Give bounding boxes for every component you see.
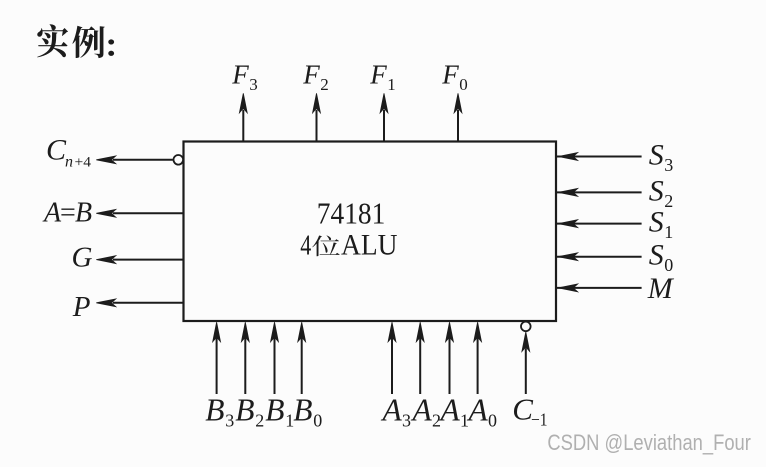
svg-text:CSDN @Leviathan_Four: CSDN @Leviathan_Four <box>547 430 751 455</box>
svg-text:F: F <box>441 60 459 90</box>
svg-text:2: 2 <box>255 411 264 431</box>
svg-text:=: = <box>60 198 76 229</box>
svg-text:A: A <box>439 392 461 427</box>
svg-text:3: 3 <box>225 411 234 431</box>
svg-text:F: F <box>231 60 249 90</box>
svg-text:74181: 74181 <box>317 195 386 230</box>
svg-text:0: 0 <box>313 411 322 431</box>
svg-text:B: B <box>75 198 92 229</box>
svg-text:4: 4 <box>300 230 311 262</box>
svg-text:A: A <box>381 392 403 427</box>
svg-text:3: 3 <box>664 155 673 175</box>
svg-text:0: 0 <box>459 75 468 94</box>
svg-text:+4: +4 <box>75 154 92 170</box>
svg-text:1: 1 <box>387 75 396 94</box>
svg-text:3: 3 <box>402 411 411 431</box>
svg-text:n: n <box>65 153 73 170</box>
svg-text:G: G <box>72 241 93 273</box>
svg-text:2: 2 <box>320 75 329 94</box>
svg-text:B: B <box>293 392 312 427</box>
svg-text:B: B <box>235 392 254 427</box>
svg-text:A: A <box>42 198 62 229</box>
svg-text:F: F <box>369 60 387 90</box>
svg-text:B: B <box>265 392 284 427</box>
svg-text:S: S <box>649 139 664 172</box>
svg-text:2: 2 <box>664 191 673 211</box>
svg-text:3: 3 <box>249 75 257 94</box>
svg-text:−1: −1 <box>531 410 548 430</box>
svg-text:ALU: ALU <box>341 229 398 262</box>
svg-text:A: A <box>411 392 433 427</box>
svg-text:S: S <box>649 174 664 207</box>
svg-text:A: A <box>467 392 489 427</box>
svg-text:P: P <box>72 291 91 323</box>
svg-text:S: S <box>649 239 664 272</box>
svg-text:C: C <box>46 134 67 167</box>
svg-text:0: 0 <box>488 411 497 431</box>
svg-text:M: M <box>647 272 675 305</box>
svg-text:B: B <box>205 392 224 427</box>
svg-text:F: F <box>302 60 320 90</box>
svg-text:S: S <box>649 206 664 239</box>
svg-text:1: 1 <box>664 222 673 242</box>
